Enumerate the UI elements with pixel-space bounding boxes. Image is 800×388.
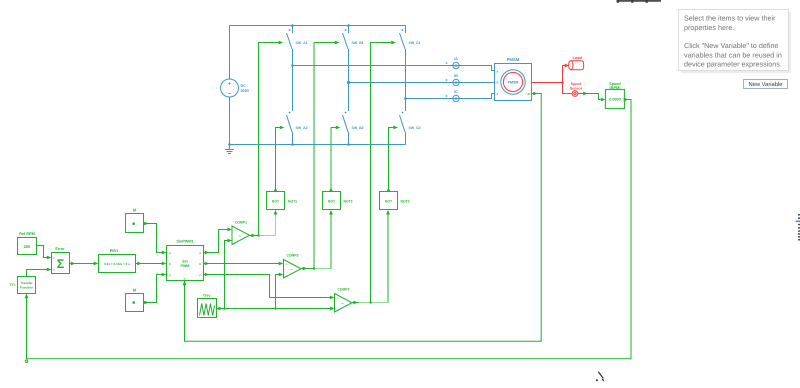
switch SW_A2	[287, 66, 308, 145]
wire shaft to load	[563, 64, 570, 83]
switch SW_A1	[287, 26, 308, 66]
svg-text:a: a	[169, 251, 171, 255]
wire COMP1 output	[250, 234, 276, 238]
svg-text:NOT1: NOT1	[288, 200, 297, 204]
svg-text:New Variable: New Variable	[748, 81, 782, 88]
comparator COMP2	[284, 254, 302, 278]
wire NOT1 to SW_A2 gate	[274, 126, 285, 192]
switch SW_B1	[343, 26, 364, 83]
UI info panel shadow	[681, 12, 791, 73]
wire carrier to COMP1	[225, 239, 233, 309]
svg-text:SW_A2: SW_A2	[296, 126, 308, 130]
wire NOT2 to SW_B2 gate	[329, 126, 340, 192]
svg-text:+: +	[286, 263, 288, 266]
wire TF to summer	[27, 268, 52, 277]
wire COMP1 to NOT1	[274, 210, 278, 236]
svg-text:A: A	[454, 63, 457, 68]
svg-text:NOT3: NOT3	[401, 200, 410, 204]
wire carrier to COMP3	[225, 307, 335, 311]
wire phase C	[406, 94, 495, 99]
node bottom bus B	[347, 143, 350, 146]
svg-text:Sin: Sin	[182, 259, 188, 263]
svg-text:TF=: TF=	[10, 283, 16, 287]
motor PMSM1	[495, 57, 532, 100]
svg-text:SW_B2: SW_B2	[352, 126, 364, 130]
wire Ref RPM to summer	[37, 246, 52, 260]
svg-text:Ref RPM: Ref RPM	[19, 232, 35, 236]
wire COMP1 to SW_A1 gate	[259, 41, 284, 236]
svg-text:0.0003: 0.0003	[609, 98, 621, 102]
svg-text:Select the items to view their: Select the items to view their	[684, 14, 776, 23]
wire theta to SinPWM bottom	[183, 281, 187, 342]
wire M1 to SinPWM input a	[144, 222, 167, 255]
svg-text:Sensor: Sensor	[570, 86, 583, 90]
controller PID1	[99, 249, 136, 273]
svg-text:300V: 300V	[241, 89, 250, 93]
ground	[225, 145, 234, 154]
svg-text:A: A	[454, 80, 457, 85]
svg-text:m: m	[528, 92, 531, 96]
svg-text:PWM: PWM	[180, 264, 189, 268]
svg-text:SW_C2: SW_C2	[409, 126, 421, 130]
svg-text:COMP1: COMP1	[235, 220, 247, 224]
wire COMP3 to SW_C1 gate	[371, 41, 396, 303]
ammeter IA	[445, 57, 459, 69]
svg-text:NOT: NOT	[272, 200, 280, 204]
svg-text:properties here.: properties here.	[684, 23, 734, 32]
wire phase A	[293, 66, 495, 71]
svg-text:c: c	[169, 273, 171, 277]
svg-text:+: +	[53, 256, 55, 260]
svg-text:(RPM): (RPM)	[610, 86, 622, 90]
svg-text:PID1: PID1	[110, 249, 118, 253]
svg-text:COMP2: COMP2	[286, 254, 298, 258]
speed sensor	[570, 82, 583, 97]
UI toolbar fragment top	[617, 0, 662, 3]
svg-text:M: M	[133, 209, 136, 213]
svg-text:PMSM: PMSM	[508, 81, 519, 85]
svg-text:b: b	[169, 262, 171, 266]
wire shaft to speed sensor	[563, 83, 572, 94]
svg-text:DC: DC	[241, 84, 247, 88]
wire PID to SinPWM	[136, 262, 167, 266]
wire RPM display output	[624, 98, 632, 102]
wire summer to PID	[70, 262, 99, 266]
wire DC source to bottom bus	[229, 97, 231, 145]
gate NOT1	[267, 192, 298, 210]
svg-text:+: +	[445, 93, 448, 98]
svg-text:SW_B1: SW_B1	[352, 41, 364, 45]
svg-text:>=: >=	[239, 235, 242, 238]
node COMP3 junction	[369, 301, 371, 303]
svg-text:a: a	[497, 69, 499, 73]
svg-text:200: 200	[24, 244, 31, 249]
svg-text:b: b	[184, 276, 186, 280]
comparator COMP1	[232, 220, 250, 244]
svg-text:+: +	[228, 82, 231, 88]
ammeter IC	[445, 90, 459, 102]
wire NOT3 to SW_C2 gate	[387, 126, 398, 192]
svg-text:IC: IC	[454, 90, 458, 94]
svg-text:variables that can be reused i: variables that can be reused in	[684, 50, 782, 59]
node phase A junction	[291, 64, 294, 67]
svg-text:SW_A1: SW_A1	[296, 41, 308, 45]
svg-text:c: c	[497, 92, 499, 96]
wire speed feedback left vertical to TF	[25, 294, 29, 363]
svg-text:M: M	[133, 289, 136, 293]
node bottom bus A	[291, 143, 294, 146]
svg-text:Osc: Osc	[203, 294, 210, 298]
node shaft junction	[561, 81, 564, 84]
oscillator Osc (triangle carrier)	[198, 294, 217, 318]
svg-text:Click "New Variable" to define: Click "New Variable" to define	[684, 41, 778, 50]
wire COMP3 to NOT3	[386, 210, 390, 303]
svg-text:A: A	[454, 96, 457, 101]
svg-text:Transfer: Transfer	[20, 281, 33, 285]
svg-text:a: a	[199, 251, 201, 255]
svg-text:PMSM: PMSM	[507, 57, 520, 62]
modulator SinPWM1	[167, 240, 204, 281]
ammeter IB	[445, 74, 459, 86]
voltage source VDC	[221, 79, 250, 98]
wire COMP2 to SW_B1 gate	[314, 41, 339, 269]
svg-text:NOT: NOT	[328, 200, 336, 204]
UI mouse cursor	[596, 372, 604, 382]
UI info panel	[679, 10, 789, 71]
svg-text:Load: Load	[573, 55, 583, 60]
constant M1	[126, 209, 144, 233]
node carrier junction 1	[223, 307, 225, 309]
svg-text:Speed: Speed	[571, 82, 582, 86]
wire phase B	[349, 82, 495, 84]
wire speed feedback right vertical	[630, 100, 632, 360]
wire Osc output	[217, 307, 225, 311]
svg-text:Σ: Σ	[57, 257, 65, 271]
svg-text:IB: IB	[454, 74, 458, 78]
svg-text:c: c	[199, 273, 201, 277]
svg-text:>=: >=	[290, 268, 293, 271]
controller feedback transfer function	[10, 277, 36, 294]
node top bus A	[291, 24, 294, 27]
wire bottom DC bus	[230, 144, 406, 146]
meter Speed (RPM)	[606, 82, 625, 109]
switch SW_B2	[343, 83, 364, 145]
svg-text:SinPWM1: SinPWM1	[176, 240, 193, 244]
node phase B junction	[347, 81, 350, 84]
svg-text:+: +	[445, 60, 448, 65]
gate NOT3	[380, 192, 410, 210]
svg-text:Function: Function	[20, 286, 33, 290]
svg-text:+: +	[53, 268, 55, 272]
svg-text:+: +	[235, 230, 237, 233]
wire COMP3 output	[352, 301, 388, 305]
node DC- bus junction	[228, 143, 231, 146]
wire speed feedback bottom horizontal	[27, 358, 632, 360]
wire COMP2 output	[301, 267, 331, 271]
svg-text:COMP3: COMP3	[337, 288, 349, 292]
switch SW_C1	[400, 26, 421, 99]
svg-text:NOT: NOT	[385, 200, 393, 204]
svg-text:device parameter expressions.: device parameter expressions.	[684, 60, 782, 69]
svg-text:>=: >=	[341, 302, 344, 305]
node carrier junction 2	[274, 307, 276, 309]
node phase C junction	[404, 97, 407, 100]
gate NOT2	[323, 192, 353, 210]
wire speed sensor to RPM display	[578, 92, 606, 102]
node COMP1 junction	[257, 234, 259, 236]
load (mechanical)	[569, 55, 584, 70]
wire SinPWM out b to COMP2	[204, 262, 284, 266]
wire motor speed output (green)	[185, 92, 542, 342]
switch SW_C2	[400, 99, 421, 145]
svg-text:b: b	[199, 262, 201, 266]
wire motor shaft (red)	[532, 82, 563, 84]
wire M2 to SinPWM input c	[144, 273, 167, 305]
summer Error	[52, 247, 70, 273]
svg-text:b: b	[497, 81, 499, 85]
svg-text:IA: IA	[454, 57, 458, 61]
svg-text:NOT2: NOT2	[344, 200, 353, 204]
node COMP2 junction	[313, 267, 315, 269]
wire carrier to COMP2	[276, 273, 284, 309]
wire SinPWM out a to COMP1	[204, 228, 233, 255]
UI right-edge clipped sidebar text	[796, 214, 800, 241]
constant M2	[126, 289, 144, 312]
wire top DC bus	[230, 25, 406, 27]
wire SinPWM out c to COMP3	[204, 273, 335, 300]
svg-text:+: +	[445, 77, 448, 82]
wire DC source to top bus	[229, 26, 231, 80]
source Ref RPM	[18, 232, 37, 254]
UI button New Variable	[744, 80, 788, 89]
svg-text:−: −	[228, 92, 232, 98]
wire COMP2 to NOT2	[329, 210, 333, 269]
svg-text:+: +	[337, 297, 339, 300]
svg-text:Error: Error	[55, 247, 65, 251]
svg-text:SW_C1: SW_C1	[409, 41, 421, 45]
node top bus B	[347, 24, 350, 27]
svg-text:0.01 + 0.15/s + 0 s: 0.01 + 0.15/s + 0 s	[104, 262, 130, 266]
comparator COMP3	[335, 288, 353, 312]
